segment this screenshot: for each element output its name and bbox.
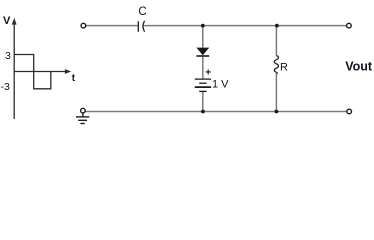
svg-text:C: C <box>138 6 146 18</box>
svg-text:Vout: Vout <box>345 60 373 74</box>
svg-text:-3: -3 <box>1 81 10 93</box>
svg-text:t: t <box>72 73 76 84</box>
svg-text:1 V: 1 V <box>212 79 229 91</box>
svg-text:3: 3 <box>5 50 11 62</box>
svg-text:+: + <box>205 68 211 79</box>
svg-text:V: V <box>3 15 11 27</box>
svg-text:R: R <box>280 62 288 74</box>
